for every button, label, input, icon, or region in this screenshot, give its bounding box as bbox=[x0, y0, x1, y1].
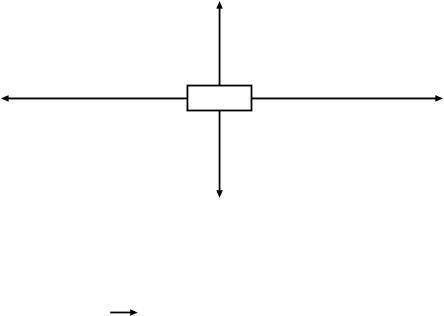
arrowhead right bbox=[435, 95, 443, 102]
arrowhead of small right arrow bbox=[130, 309, 138, 315]
wire: horizontal double-headed arrow line bbox=[8, 97, 437, 99]
arrowhead down bbox=[216, 190, 223, 198]
process box bbox=[187, 86, 251, 111]
small right arrow (legend) bbox=[110, 312, 131, 314]
wire: vertical double-headed arrow line bbox=[219, 8, 221, 192]
arrowhead left bbox=[1, 95, 9, 102]
arrowhead up bbox=[216, 1, 223, 9]
